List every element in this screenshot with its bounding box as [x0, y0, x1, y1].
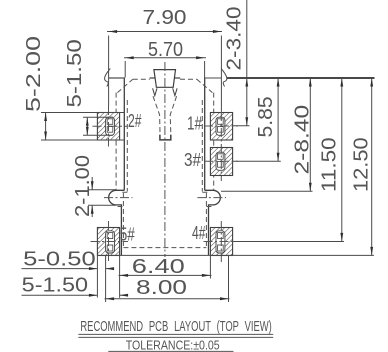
- contact left stub: [150, 77, 155, 79]
- right pad column centerline bottom: [220, 221, 222, 262]
- pad 4#: [210, 228, 232, 256]
- svg-text:2-1.00: 2-1.00: [72, 155, 94, 217]
- 2-1.00 ext lines: [88, 189, 116, 191]
- svg-text:8.00: 8.00: [136, 277, 187, 299]
- right companion notch steps dashed: [202, 192, 212, 206]
- dim 8.00 line: [105, 298, 230, 300]
- body top edge dashed left part: [133, 78, 150, 80]
- funnel left dashed: [153, 96, 160, 133]
- left notch centerline: [104, 197, 133, 199]
- top-right chamfer dashed: [197, 79, 213, 92]
- 2-3.40 up arrow: [245, 78, 248, 87]
- svg-text:7.90: 7.90: [143, 7, 187, 29]
- svg-text:5.70: 5.70: [148, 39, 183, 61]
- svg-text:5-2.00: 5-2.00: [23, 36, 45, 112]
- funnel solid cap: [160, 135, 171, 140]
- svg-text:11.50: 11.50: [319, 137, 341, 192]
- 11.50 ext at pad4 center: [233, 241, 344, 243]
- right notch step+arc (solid): [205, 190, 221, 255]
- 5-0.50 ext line: [96, 256, 98, 298]
- svg-text:6.40: 6.40: [132, 256, 185, 278]
- 12.50 long ext line at pad bottoms: [97, 254, 374, 256]
- left pad column centerline top: [108, 106, 110, 147]
- 5.70 left arrow: [125, 56, 134, 59]
- pad 2#: [97, 113, 119, 141]
- 7.90 right arrow: [213, 30, 222, 33]
- right body dashed companion: [201, 100, 203, 192]
- svg-text:RECOMMEND PCB LAYOUT (TOP VIEW: RECOMMEND PCB LAYOUT (TOP VIEW): [80, 319, 271, 335]
- pad5 horizontal centerline: [91, 241, 129, 243]
- main vertical centerline: [164, 62, 166, 257]
- break squiggle left: [105, 69, 111, 87]
- tolerance underline: [108, 350, 233, 352]
- pad 3#: [210, 148, 232, 176]
- 5.70 extension lines: [124, 61, 126, 78]
- 8.00 ext lines: [105, 256, 107, 302]
- left companion notch steps dashed: [118, 192, 128, 206]
- dim 5-0.50 line: [22, 268, 98, 270]
- 7.90 left extension line with break: [108, 36, 110, 107]
- pad4 horizontal centerline: [204, 241, 238, 243]
- dim 5.85 vertical line: [277, 78, 279, 161]
- funnel right dashed: [170, 96, 176, 133]
- caption underline double: [78, 333, 273, 335]
- dim 2-8.40 vertical line: [309, 78, 311, 191]
- 6.40 ext lines: [119, 256, 121, 298]
- dim 12.50 vertical line: [371, 78, 373, 255]
- svg-text:5-1.50: 5-1.50: [22, 274, 88, 296]
- top-left chamfer dashed: [117, 79, 132, 92]
- left body dashed companion: [126, 100, 128, 192]
- svg-text:2-8.40: 2-8.40: [292, 105, 314, 175]
- pad2 horizontal centerline: [93, 125, 128, 127]
- svg-text:2-3.40: 2-3.40: [224, 7, 246, 71]
- bottom dashed edge: [123, 247, 206, 249]
- dim 6.40 line: [119, 274, 212, 276]
- 2-3.40 down arrow: [245, 117, 248, 126]
- svg-text:5.85: 5.85: [255, 96, 277, 137]
- svg-text:3#: 3#: [184, 150, 201, 170]
- dim 5.70 line: [124, 57, 206, 59]
- 2-8.40 ext at notch: [221, 190, 313, 192]
- break squiggle right: [221, 69, 227, 87]
- dim 5-1.50 upper vertical line: [86, 117, 88, 135]
- dim 2-1.00 vertical line: [91, 177, 93, 190]
- pad 5#: [97, 228, 119, 256]
- left notch step+arc (solid): [109, 190, 125, 255]
- left V hook: [153, 88, 157, 95]
- body right edge (solid): [204, 78, 206, 191]
- left lower dashed edge: [122, 193, 124, 248]
- 2-3.40 ext at pad1 center: [233, 125, 250, 127]
- 5-1.50 ext lines: [83, 116, 113, 118]
- contact right stub: [175, 77, 180, 79]
- body left edge (solid): [123, 78, 125, 191]
- svg-text:4#: 4#: [192, 223, 206, 243]
- center contact trapezoid: [154, 70, 176, 88]
- pad 1#: [210, 113, 232, 141]
- left pad column centerline bottom: [108, 221, 110, 261]
- right notch centerline: [197, 197, 226, 199]
- dim 7.90 line: [107, 31, 222, 33]
- 5.85 ext at pad3 center: [233, 160, 281, 162]
- svg-text:1#: 1#: [187, 114, 202, 134]
- svg-text:2#: 2#: [128, 111, 142, 131]
- top reference line left segment: [109, 77, 125, 79]
- svg-text:12.50: 12.50: [351, 137, 373, 192]
- 5.70 right arrow: [196, 56, 205, 59]
- left flange dashed: [115, 93, 117, 190]
- right flange dashed: [213, 93, 215, 190]
- 5-2.00 ext lines: [41, 112, 124, 114]
- pad3 horizontal centerline: [204, 160, 238, 162]
- body top edge dashed right part: [180, 78, 197, 80]
- right pad column centerline top: [220, 112, 222, 181]
- pad1 horizontal centerline: [204, 125, 238, 127]
- 7.90 right extension line with break: [220, 36, 222, 112]
- svg-text:5#: 5#: [120, 225, 135, 245]
- dim 5-1.50 bottom line: [22, 294, 98, 296]
- svg-text:TOLERANCE:±0.05: TOLERANCE:±0.05: [126, 339, 220, 352]
- right V hook: [173, 88, 177, 95]
- dim 11.50 vertical line: [341, 78, 343, 241]
- top reference line right segment: [205, 77, 222, 79]
- svg-text:5-0.50: 5-0.50: [23, 248, 96, 270]
- dim 5-2.00 vertical line: [45, 113, 47, 141]
- right lower dashed edge: [205, 193, 207, 248]
- 7.90 left arrow: [109, 30, 118, 33]
- svg-text:5-1.50: 5-1.50: [64, 39, 86, 107]
- dim 2-3.40 vertical line: [246, 0, 248, 126]
